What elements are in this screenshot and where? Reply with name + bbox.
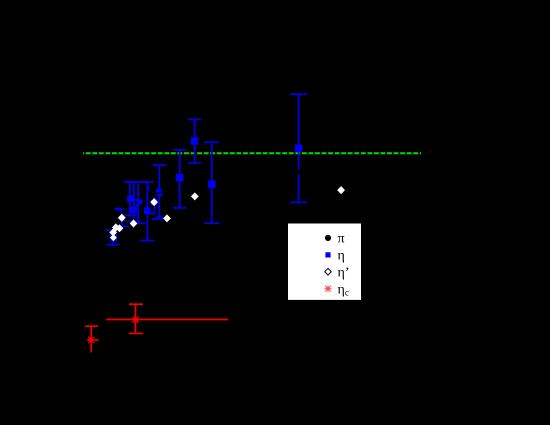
svg-text:η: η [338,249,345,264]
diamond d4 [130,220,138,228]
eta point G error bar [133,182,135,221]
legend eta_c marker [325,285,332,292]
eta small dash [106,229,111,231]
diamond d8 [110,234,117,241]
eta square G [130,207,137,214]
eta point H error bar [146,182,148,241]
eta square A [191,137,199,145]
eta point C error bar [211,142,213,223]
eta square E [156,189,163,196]
eta point A error bar [194,119,196,163]
eta square J [110,234,117,241]
R1 horizontal error bar [106,319,228,321]
eta horizontal bar point [115,208,123,211]
eta hidden error bar [137,182,139,223]
diamond d10 [337,186,345,194]
diamond d2 [118,214,126,222]
R2 horizontal error bar [87,339,98,341]
eta square F [127,196,133,202]
eta point F error bar [129,182,131,216]
eta point J error bar [112,232,114,245]
eta point D error bar [298,94,300,202]
legend eta prime marker [325,268,332,275]
diamond d5 [112,223,120,231]
diamond d9 [191,192,199,200]
diamond d1 [150,198,158,206]
diamond d7 [109,228,117,236]
eta square I [119,216,125,221]
eta point E error bar [158,165,160,217]
wedge band upper [133,200,142,202]
diamond d6 [116,224,124,232]
eta square behind d1 [151,199,157,205]
wedge vertex [141,200,143,203]
eta square D [295,145,303,153]
R2 star marker [88,336,94,344]
small diagonal near d6 [114,229,119,232]
wedge band lower [136,202,142,205]
eta square B [176,174,184,182]
white diamonds (eta prime) [109,186,345,241]
legend pi marker [325,235,331,241]
eta point I short bar [121,221,123,227]
legend eta marker [325,252,330,257]
eta hidden point behind d1 [153,197,155,214]
eta point B error bar [179,150,181,208]
eta small dash b [148,187,150,189]
eta square C [208,181,216,189]
green dashed asymptotic line [83,152,421,154]
diamond d3 [163,214,171,222]
svg-text:η’: η’ [338,265,350,280]
legend box [288,224,361,300]
eta square H [144,207,151,214]
red eta_c points [85,304,228,352]
R2 vertical error bar [90,326,92,352]
R1 star marker [132,316,140,324]
black slash over square E [156,192,163,194]
black pi marker over line D (invisible circle creating gap) [296,170,301,175]
R1 vertical error bar [135,304,137,333]
svg-text:π: π [338,232,345,247]
